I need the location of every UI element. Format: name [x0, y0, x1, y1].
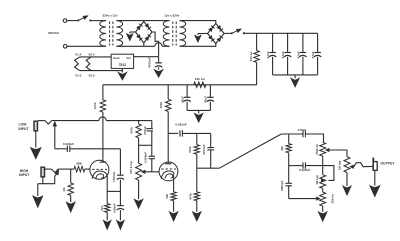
ground 1M — [66, 202, 75, 212]
svg-text:220v x 12v: 220v x 12v — [102, 14, 117, 18]
svg-text:470k: 470k — [130, 127, 134, 134]
ground volume pot — [134, 199, 143, 208]
resistor 2k7 cathode — [106, 191, 108, 203]
transformer T1 220v x 12v — [100, 21, 106, 47]
wire LOW line to divider (hops V1 plate) — [52, 120, 99, 122]
wire V2 cathode — [173, 176, 175, 192]
svg-text:Vin: Vin — [126, 56, 131, 60]
resistor 470k load — [196, 133, 198, 144]
wire neutral to T1 — [67, 45, 106, 47]
wire filter bottom — [187, 109, 210, 111]
svg-text:OUTPUT: OUTPUT — [380, 162, 395, 166]
svg-text:470pF: 470pF — [298, 128, 307, 132]
svg-text:47uF: 47uF — [311, 51, 315, 58]
wiper 100k pot — [142, 170, 146, 173]
wire B2 minus to ground — [198, 33, 208, 35]
ground 25k lin — [318, 212, 327, 221]
svg-text:V2.4: V2.4 — [88, 52, 95, 56]
svg-text:2k7: 2k7 — [100, 205, 104, 210]
ground 470k — [193, 212, 202, 221]
svg-text:470k: 470k — [188, 193, 192, 200]
wire filter bank bottom — [273, 74, 318, 76]
switch S2 standby — [231, 32, 233, 34]
svg-text:47uF: 47uF — [204, 96, 208, 103]
terminal J1 220VAC live — [63, 19, 67, 23]
ground B2 minus — [197, 34, 199, 35]
triode V1 — [90, 160, 109, 179]
capacitor 47uF filter 2 — [287, 33, 289, 52]
ground filter — [198, 110, 200, 113]
svg-text:V1.5: V1.5 — [75, 73, 82, 77]
wire live to switch — [67, 20, 78, 22]
svg-text:HIGH: HIGH — [20, 169, 29, 173]
ground master pot — [343, 186, 351, 195]
svg-text:47uF: 47uF — [296, 51, 300, 58]
svg-text:47uF: 47uF — [281, 51, 285, 58]
switch S1 mains — [77, 19, 79, 21]
resistor 470k interstage — [138, 121, 140, 124]
svg-text:0.022uF: 0.022uF — [175, 122, 186, 126]
svg-text:68K: 68K — [76, 162, 82, 166]
capacitor 0.022uF low input — [55, 148, 68, 150]
svg-text:470k: 470k — [188, 146, 192, 153]
jack OUTPUT contact — [354, 163, 373, 167]
wiper 1M log bass — [321, 179, 325, 182]
svg-text:250k lin: 250k lin — [315, 144, 319, 155]
svg-text:0.022uF: 0.022uF — [299, 168, 310, 172]
ground 0.68uF — [117, 220, 125, 229]
terminal J2 220VAC neutral — [63, 45, 67, 49]
wire Vin to node — [134, 56, 159, 58]
svg-text:100 k log: 100 k log — [129, 161, 133, 174]
svg-text:6800pF: 6800pF — [280, 180, 284, 191]
wire 68K to V1 grid — [85, 168, 90, 170]
svg-text:LOW: LOW — [18, 122, 27, 126]
svg-text:12v x 220v: 12v x 220v — [164, 14, 179, 18]
wire heater top V1.4 V2.4 — [80, 56, 112, 58]
capacitor 47uF filter 3 — [302, 33, 304, 52]
capacitor 470pF treble — [302, 131, 304, 137]
svg-text:1M log: 1M log — [315, 175, 319, 185]
wire V1 cathode — [106, 175, 108, 191]
capacitor 47uF node A — [186, 85, 188, 98]
resistor 68K grid stopper — [74, 166, 85, 171]
svg-text:V1.4: V1.4 — [75, 52, 82, 56]
contact arrow HIGH jack — [55, 170, 59, 175]
svg-text:100k: 100k — [159, 102, 163, 109]
wire heater bottom V1.5 V2.5 — [80, 70, 123, 72]
resistor 30k 1w — [256, 33, 258, 50]
jack OUTPUT — [372, 158, 374, 171]
capacitor 47uF filter 1 — [272, 33, 274, 52]
wire master bottom to ground — [346, 172, 348, 186]
bridge rectifier B1 — [136, 22, 153, 44]
capacitor 4700uF — [158, 57, 160, 63]
wire 25k bottom to ground — [322, 206, 324, 212]
wire switch to T1 — [90, 20, 106, 22]
potentiometer 100 k log — [136, 163, 142, 180]
wire LOW tip with break contact — [38, 120, 45, 122]
wire diagonal to tone stack — [219, 134, 281, 168]
wire pot bottom to ground — [138, 180, 140, 199]
triode V2 — [159, 162, 178, 181]
svg-text:V2.5: V2.5 — [88, 73, 95, 77]
wire HIGH sleeve to ground — [42, 177, 44, 184]
wire 12v top rail — [116, 20, 169, 22]
wire to volume pot — [138, 145, 140, 163]
capacitor 1000uF — [119, 149, 121, 175]
wire 12v bottom rail with hop — [116, 45, 154, 47]
svg-text:INPUT: INPUT — [18, 127, 29, 131]
wire HIGH tip with break contact — [45, 168, 52, 170]
svg-text:0.68uF: 0.68uF — [112, 203, 116, 213]
capacitor 6800pF — [288, 166, 290, 184]
transformer T2 12v x 220v — [163, 21, 169, 47]
svg-text:INPUT: INPUT — [19, 173, 30, 177]
capacitor 470pF interstage — [151, 121, 153, 129]
ground 2k7 — [103, 220, 111, 229]
wire interstage bottom rail — [139, 144, 152, 146]
wire B2 plus to standby switch — [224, 32, 231, 34]
wire tone top — [281, 133, 303, 135]
potentiometer 1M log bass — [320, 175, 326, 189]
capacitor 0.022uF tone — [302, 162, 304, 168]
wiper master — [350, 165, 354, 168]
wire B1 minus to ground — [130, 31, 136, 33]
wire load bottom rail — [197, 167, 220, 169]
svg-text:47uF: 47uF — [266, 51, 270, 58]
ground OUTPUT jack — [370, 186, 380, 197]
svg-text:10k: 10k — [165, 194, 169, 199]
wire B1 plus to regulator node — [152, 32, 159, 57]
regulator U1 7812 — [111, 54, 133, 68]
wire B1 bottom vertex — [143, 43, 145, 46]
wiper 250k — [326, 148, 330, 151]
wire B1 top vertex — [143, 20, 145, 23]
heater V2 filament — [86, 57, 91, 71]
wire coupling to load — [182, 132, 210, 134]
svg-text:4700uF: 4700uF — [148, 57, 152, 68]
svg-text:30k 1w: 30k 1w — [249, 51, 253, 62]
capacitor 4700pF load — [210, 133, 212, 147]
svg-text:1000uF: 1000uF — [112, 171, 116, 182]
svg-text:25k lin: 25k lin — [330, 194, 334, 204]
ground LOW jack sleeve — [35, 131, 37, 148]
heater V1 filament — [75, 57, 80, 71]
svg-text:1M: 1M — [62, 187, 66, 192]
resistor 33k — [288, 134, 290, 144]
svg-text:0.022uF: 0.022uF — [63, 142, 74, 146]
capacitor 47uF node B — [209, 85, 211, 98]
potentiometer 250k lin treble — [320, 142, 326, 156]
wire 6800pF to 25k wiper — [289, 198, 317, 200]
contact arrow LOW jack — [53, 121, 57, 126]
capacitor 0.022uF coupling — [168, 132, 178, 134]
svg-text:7812: 7812 — [119, 63, 127, 67]
wire mid row — [289, 165, 303, 167]
capacitor 47uF filter 4 — [317, 33, 319, 52]
wire T2 secondary top — [180, 21, 216, 24]
resistor 10k 1w dropping — [194, 82, 206, 87]
wire 0.022uF to cathode cap (crosses plate) — [70, 148, 121, 150]
svg-text:100k: 100k — [93, 102, 97, 109]
wire B+ rail — [103, 84, 257, 86]
svg-text:470pF: 470pF — [143, 126, 147, 135]
bridge rectifier B2 — [208, 24, 225, 44]
wire output sleeve to ground — [374, 170, 376, 185]
resistor 100k V2 plate — [167, 85, 169, 99]
svg-text:47uF: 47uF — [180, 96, 184, 103]
jack LOW INPUT — [34, 121, 38, 131]
ground 4700uF — [154, 70, 163, 78]
svg-text:0.068uF: 0.068uF — [143, 152, 147, 163]
wire V2 plate — [167, 111, 169, 163]
resistor 470k to ground — [196, 168, 198, 192]
svg-text:4700pF: 4700pF — [202, 144, 206, 155]
wire 250k bottom to 1M log top — [322, 156, 324, 175]
ground filter bank — [294, 75, 296, 78]
capacitor 0.068uF bright — [151, 145, 153, 156]
svg-text:10k 1w: 10k 1w — [195, 77, 206, 81]
resistor 100k V1 plate — [102, 85, 104, 100]
ground 1k — [169, 212, 178, 221]
wire HIGH tip to grid — [58, 168, 74, 170]
resistor 1M grid leak — [70, 169, 72, 183]
ground HIGH jack — [33, 196, 43, 207]
ground B1 minus — [129, 32, 131, 33]
potentiometer 25k lin — [322, 188, 324, 192]
wire V1 plate — [102, 112, 104, 162]
wire T2 secondary bottom — [180, 44, 216, 47]
jack HIGH INPUT — [41, 167, 45, 177]
wire HT rail — [244, 32, 318, 34]
capacitor 0.68uF cathode bypass — [119, 191, 121, 205]
ground U1 — [121, 68, 123, 72]
svg-text:Vout: Vout — [113, 56, 120, 60]
wiper 25k lin — [317, 197, 321, 200]
potentiometer 1M log master — [344, 157, 350, 173]
svg-text:220VAC: 220VAC — [48, 31, 60, 35]
resistor 1k V2 cathode — [171, 192, 176, 201]
svg-text:1M log: 1M log — [337, 160, 341, 170]
svg-text:33k: 33k — [280, 146, 284, 151]
